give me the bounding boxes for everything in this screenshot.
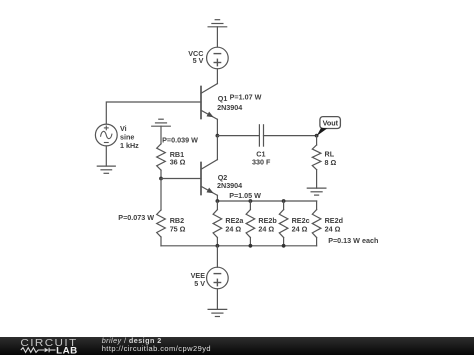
svg-text:P=1.07 W: P=1.07 W bbox=[230, 93, 262, 102]
resistor RE2a 24ohm bbox=[213, 201, 222, 246]
wire: bottom rail bbox=[161, 245, 317, 247]
resistor RE2c 24ohm bbox=[279, 201, 288, 246]
label RL 8ohm bbox=[325, 150, 337, 167]
footer bar bbox=[0, 337, 474, 355]
svg-text:P=0.13 W each: P=0.13 W each bbox=[328, 236, 378, 245]
wire: bottom rail to VEE bbox=[216, 246, 218, 267]
wire: base node to Q2 base bbox=[161, 178, 201, 180]
capacitor C1 330F bbox=[259, 125, 263, 146]
junction dot bottom rail at RE2c bbox=[282, 244, 286, 248]
junction dot emitter rail at RE2a bbox=[216, 199, 220, 203]
wire: Q1 emitter down to node A bbox=[216, 119, 218, 135]
junction dot bottom rail at VEE bbox=[216, 244, 220, 248]
svg-text:Vout: Vout bbox=[323, 119, 339, 128]
voltage source VCC 5V bbox=[207, 47, 229, 69]
wire: VCC to Q1 collector bbox=[216, 69, 218, 84]
svg-text:P=0.039 W: P=0.039 W bbox=[162, 135, 198, 144]
label VEE 5V bbox=[191, 271, 206, 288]
voltage source Vi sine 1kHz bbox=[95, 124, 117, 146]
ground (below RL) bbox=[307, 188, 326, 195]
footer url text bbox=[102, 345, 211, 353]
svg-text:P=0.073 W: P=0.073 W bbox=[118, 213, 154, 222]
label RE2c 24ohm bbox=[292, 216, 310, 234]
wire: top ground to VCC bbox=[216, 27, 218, 47]
svg-text:2N3904: 2N3904 bbox=[217, 181, 242, 190]
label VCC 5V bbox=[188, 49, 203, 65]
wire: emitter rail P=1.05W bbox=[217, 200, 316, 202]
wire: Q2 emitter to emitter rail bbox=[216, 195, 218, 201]
svg-text:5 V: 5 V bbox=[194, 279, 205, 288]
voltage source VEE 5V bbox=[207, 267, 229, 289]
wire: RB1 to base node bbox=[160, 170, 162, 178]
resistor RE2b 24ohm bbox=[246, 201, 255, 246]
svg-text:24 Ω: 24 Ω bbox=[258, 225, 274, 234]
svg-text:36 Ω: 36 Ω bbox=[170, 157, 186, 166]
label Vi sine 1kHz bbox=[120, 124, 139, 150]
junction dot emitter rail at RE2c bbox=[282, 199, 286, 203]
net flag Vout bbox=[317, 117, 341, 136]
resistor RE2d 24ohm bbox=[312, 201, 321, 246]
label RE2b 24ohm bbox=[258, 216, 277, 234]
wire: Vi to Q1 base bbox=[106, 102, 201, 124]
label C1 330F bbox=[252, 150, 271, 167]
svg-text:2N3904: 2N3904 bbox=[217, 103, 242, 112]
resistor RL 8ohm bbox=[312, 145, 321, 170]
svg-text:1 kHz: 1 kHz bbox=[120, 141, 139, 150]
svg-text:P=1.05 W: P=1.05 W bbox=[229, 191, 261, 200]
label Q1 P=1.07 W / 2N3904 bbox=[217, 93, 261, 112]
wire: VEE to ground bbox=[216, 289, 218, 310]
ground (below Vi) bbox=[97, 166, 115, 173]
wire: node A to Q2 collector bbox=[216, 136, 218, 160]
transistor Q2 2N3904 bbox=[201, 160, 217, 196]
wire: Vout node to RL bbox=[316, 136, 318, 145]
svg-text:330 F: 330 F bbox=[252, 158, 271, 167]
node A junction dot bbox=[216, 134, 220, 138]
label RE2a 24ohm bbox=[225, 216, 244, 234]
resistor RB2 75ohm bbox=[157, 210, 166, 237]
svg-text:5 V: 5 V bbox=[193, 56, 204, 65]
label RB2 75ohm bbox=[170, 216, 186, 233]
junction dot bottom rail at RE2b bbox=[249, 244, 253, 248]
svg-text:75 Ω: 75 Ω bbox=[170, 225, 186, 234]
label RB1 36ohm bbox=[170, 150, 186, 166]
wire: C1 to Vout node bbox=[264, 135, 317, 137]
node: base of Q2 junction dot bbox=[159, 177, 163, 181]
svg-text:24 Ω: 24 Ω bbox=[292, 225, 308, 234]
CircuitLab logo bbox=[0, 337, 100, 355]
svg-text:LAB: LAB bbox=[56, 345, 78, 355]
junction dot emitter rail at RE2b bbox=[249, 199, 253, 203]
ground (above RB1) bbox=[152, 119, 171, 126]
wire: RL to ground bbox=[316, 170, 318, 189]
svg-text:8 Ω: 8 Ω bbox=[325, 158, 337, 167]
resistor RB1 36ohm bbox=[157, 144, 166, 170]
label RE2d 24ohm bbox=[325, 216, 343, 234]
label Q2 P=1.05 W / 2N3904 bbox=[217, 173, 261, 200]
ground (below VEE) bbox=[208, 309, 227, 316]
footer title text bbox=[102, 337, 162, 344]
transistor Q1 2N3904 bbox=[201, 84, 217, 120]
wire: RB2 bottom lead bbox=[160, 237, 162, 246]
svg-text:24 Ω: 24 Ω bbox=[325, 225, 341, 234]
svg-text:24 Ω: 24 Ω bbox=[225, 225, 241, 234]
wire: Vi to ground bbox=[105, 146, 107, 166]
wire: RB2 top lead bbox=[160, 179, 162, 211]
node Vout junction dot bbox=[315, 134, 319, 138]
wire: node A to C1 bbox=[217, 135, 259, 137]
wire: ground to RB1 bbox=[160, 126, 162, 144]
ground (top, above VCC) bbox=[208, 20, 227, 27]
